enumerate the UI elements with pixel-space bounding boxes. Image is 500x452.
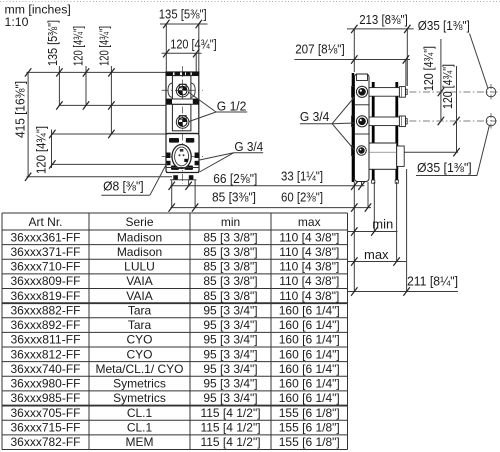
svg-text:85 [3 3/8"]: 85 [3 3/8"]: [203, 245, 257, 259]
svg-text:33 [1¼"]: 33 [1¼"]: [281, 169, 323, 184]
corner pads: [169, 138, 179, 143]
centerline circle1 vertical: [490, 84, 492, 100]
centerline pipe2 horizontal: [369, 120, 497, 122]
svg-text:160 [6 1/4"]: 160 [6 1/4"]: [279, 391, 340, 405]
svg-text:Madison: Madison: [117, 230, 162, 244]
mid module inner box: [172, 104, 191, 131]
svg-text:MEM: MEM: [126, 435, 154, 449]
left reference line E (bottom): [27, 176, 173, 178]
svg-text:max: max: [298, 215, 321, 229]
dim 120 vertical line bottom-left: [51, 130, 53, 169]
top dotted border: [0, 1, 500, 3]
table grid: [2, 212, 348, 214]
dim 120 vertical line #2: [110, 66, 112, 134]
svg-text:155 [6 1/8"]: 155 [6 1/8"]: [279, 406, 340, 420]
top rail band with pads: [166, 72, 199, 76]
svg-text:85 [3 3/8"]: 85 [3 3/8"]: [203, 260, 257, 274]
svg-text:207 [8⅛"]: 207 [8⅛"]: [295, 42, 345, 57]
left rail bar: [372, 82, 375, 180]
dim 120 top horizontal: [162, 52, 202, 54]
dim 120 vertical line #1: [85, 66, 87, 105]
upper module inner box: [172, 76, 191, 99]
port G1/2 lower: stem rect: [179, 116, 186, 120]
circle d35 bottom: [486, 116, 496, 126]
centerline left view oval horizontal: [162, 156, 204, 158]
svg-text:G 3/4: G 3/4: [300, 109, 329, 124]
dim 135 top horizontal: line and extensions: [160, 23, 208, 25]
svg-text:36xxx740-FF: 36xxx740-FF: [11, 362, 81, 376]
svg-text:85 [3 3/8"]: 85 [3 3/8"]: [203, 274, 257, 288]
svg-text:85 [3 3/8"]: 85 [3 3/8"]: [203, 230, 257, 244]
svg-text:36xxx819-FF: 36xxx819-FF: [11, 289, 81, 303]
svg-text:160 [6 1/4"]: 160 [6 1/4"]: [279, 347, 340, 361]
svg-text:36xxx985-FF: 36xxx985-FF: [11, 391, 81, 405]
svg-text:LULU: LULU: [124, 260, 155, 274]
svg-text:Symetrics: Symetrics: [113, 391, 166, 405]
left reference line D: [53, 163, 166, 165]
dim 213 line: [347, 28, 414, 30]
oval inner marks: [184, 159, 188, 162]
svg-text:Madison: Madison: [117, 245, 162, 259]
right rail bar: [395, 82, 398, 180]
feet: [173, 175, 178, 180]
left reference line B: [59, 104, 166, 106]
211 dim line: [348, 291, 458, 293]
port G1/2 lower circle: [176, 116, 189, 129]
svg-text:Tara: Tara: [128, 303, 152, 317]
big oval G3/4 outer: [172, 145, 191, 169]
lower module (G3/4) outline: [166, 134, 199, 173]
svg-text:36xxx782-FF: 36xxx782-FF: [11, 435, 81, 449]
svg-text:110 [4 3/8"]: 110 [4 3/8"]: [279, 274, 339, 288]
svg-text:120 [4¾"]: 120 [4¾"]: [70, 26, 85, 66]
svg-text:Ø35 [1⅜"]: Ø35 [1⅜"]: [417, 160, 472, 175]
svg-text:95 [3 3/4"]: 95 [3 3/4"]: [203, 318, 257, 332]
wall plate thick line: [352, 73, 355, 182]
bottom bar of lower module: [166, 167, 199, 169]
port G1/2 upper: stem rect: [179, 84, 186, 88]
centerline left view vertical: [181, 66, 183, 184]
svg-text:115 [4 1/2"]: 115 [4 1/2"]: [200, 406, 260, 420]
svg-text:160 [6 1/4"]: 160 [6 1/4"]: [279, 318, 340, 332]
svg-text:160 [6 1/4"]: 160 [6 1/4"]: [279, 303, 340, 317]
big oval inner: [175, 147, 189, 166]
svg-text:CL.1: CL.1: [127, 420, 153, 434]
pipe1: [369, 88, 399, 97]
svg-text:Tara: Tara: [128, 318, 152, 332]
module separators: [355, 104, 370, 106]
svg-text:36xxx811-FF: 36xxx811-FF: [11, 333, 81, 347]
left reference line C: [53, 133, 166, 135]
svg-text:95 [3 3/4"]: 95 [3 3/4"]: [203, 333, 257, 347]
svg-text:Ø8 [⅜"]: Ø8 [⅜"]: [103, 178, 144, 193]
dim 415 vertical line: [27, 72, 29, 176]
svg-text:36xxx980-FF: 36xxx980-FF: [11, 377, 81, 391]
svg-text:VAIA: VAIA: [126, 289, 152, 303]
svg-text:110 [4 3/8"]: 110 [4 3/8"]: [279, 245, 339, 259]
tick marks: [163, 20, 169, 28]
svg-text:155 [6 1/8"]: 155 [6 1/8"]: [279, 420, 340, 434]
svg-text:110 [4 3/8"]: 110 [4 3/8"]: [279, 289, 339, 303]
min dim line: [348, 231, 398, 233]
svg-text:213 [8⅜"]: 213 [8⅜"]: [359, 12, 408, 27]
svg-text:160 [6 1/4"]: 160 [6 1/4"]: [279, 362, 340, 376]
svg-text:G 3/4: G 3/4: [234, 139, 263, 154]
bottom dim line 85/60: [170, 207, 371, 209]
max dim line: [348, 261, 406, 263]
svg-text:60 [2⅜"]: 60 [2⅜"]: [281, 190, 323, 205]
centerline pipe3 short: [369, 151, 404, 153]
small left nubs: [352, 87, 355, 98]
svg-text:115 [4 1/2"]: 115 [4 1/2"]: [200, 435, 260, 449]
svg-text:85 [3⅜"]: 85 [3⅜"]: [212, 190, 256, 205]
extension below left view: [171, 180, 173, 208]
svg-text:120 [4¾"]: 120 [4¾"]: [440, 64, 455, 109]
svg-text:120 [4¾"]: 120 [4¾"]: [170, 36, 216, 51]
svg-text:CYO: CYO: [126, 347, 152, 361]
svg-text:120 [4¾"]: 120 [4¾"]: [33, 126, 48, 174]
svg-text:min: min: [372, 216, 393, 231]
svg-text:211 [8¼"]: 211 [8¼"]: [407, 273, 458, 288]
svg-text:135 [5⅜"]: 135 [5⅜"]: [45, 20, 60, 66]
svg-text:95 [3 3/4"]: 95 [3 3/4"]: [203, 347, 257, 361]
svg-text:120 [4¾"]: 120 [4¾"]: [96, 26, 111, 66]
pipe3 big cylinder: [369, 143, 397, 169]
svg-text:135 [5⅜"]: 135 [5⅜"]: [159, 7, 207, 22]
dim 120 right vertical #2: [456, 66, 458, 152]
bottom dim line 66/33: [170, 185, 364, 187]
svg-text:VAIA: VAIA: [126, 274, 152, 288]
svg-text:Meta/CL.1/ CYO: Meta/CL.1/ CYO: [95, 362, 183, 376]
svg-text:110 [4 3/8"]: 110 [4 3/8"]: [279, 260, 339, 274]
svg-text:110 [4 3/8"]: 110 [4 3/8"]: [279, 230, 339, 244]
module1 port circle: [356, 86, 367, 97]
mid rail band with pads: [166, 99, 199, 104]
svg-text:Symetrics: Symetrics: [113, 377, 166, 391]
svg-text:85 [3 3/8"]: 85 [3 3/8"]: [203, 289, 257, 303]
svg-text:max: max: [364, 247, 389, 262]
module1 cap: [357, 74, 368, 81]
side clips: [166, 153, 170, 159]
circle d35 top: [486, 87, 496, 97]
dim 207 line: [294, 59, 410, 61]
svg-text:95 [3 3/4"]: 95 [3 3/4"]: [203, 391, 257, 405]
centerline pipe1 horizontal: [369, 91, 500, 93]
centerline left view port1 horizontal: [162, 89, 203, 91]
svg-text:36xxx812-FF: 36xxx812-FF: [11, 347, 81, 361]
left ear: [168, 83, 172, 98]
left view body outline: [166, 72, 199, 134]
dim 120 right vertical #1: [440, 39, 442, 121]
svg-text:36xxx710-FF: 36xxx710-FF: [11, 260, 81, 274]
svg-text:G 1/2: G 1/2: [217, 98, 247, 113]
svg-text:Art Nr.: Art Nr.: [28, 215, 62, 229]
port G1/2 upper circle: [176, 84, 189, 97]
svg-text:160 [6 1/4"]: 160 [6 1/4"]: [279, 333, 340, 347]
svg-text:155 [6 1/8"]: 155 [6 1/8"]: [279, 435, 340, 449]
svg-text:95 [3 3/4"]: 95 [3 3/4"]: [203, 303, 257, 317]
svg-text:36xxx809-FF: 36xxx809-FF: [11, 274, 81, 288]
pipe2: [369, 117, 399, 126]
svg-text:160 [6 1/4"]: 160 [6 1/4"]: [279, 377, 340, 391]
svg-text:36xxx715-FF: 36xxx715-FF: [11, 420, 81, 434]
svg-text:CYO: CYO: [126, 333, 152, 347]
svg-text:36xxx892-FF: 36xxx892-FF: [11, 318, 81, 332]
dim 135 vertical line: [58, 66, 60, 105]
svg-text:Ø35 [1⅜"]: Ø35 [1⅜"]: [418, 18, 470, 33]
svg-text:36xxx882-FF: 36xxx882-FF: [11, 303, 81, 317]
svg-text:Serie: Serie: [125, 215, 153, 229]
centerline circle2 vertical: [490, 113, 492, 129]
svg-text:36xxx361-FF: 36xxx361-FF: [11, 230, 81, 244]
svg-text:115 [4 1/2"]: 115 [4 1/2"]: [200, 420, 260, 434]
svg-text:36xxx371-FF: 36xxx371-FF: [11, 245, 81, 259]
svg-text:66 [2⅝"]: 66 [2⅝"]: [213, 171, 257, 186]
body column outline: [355, 74, 370, 182]
right ear: [191, 83, 195, 98]
svg-text:CL.1: CL.1: [127, 406, 153, 420]
svg-text:1:10: 1:10: [5, 15, 29, 29]
module2 port circle: [356, 116, 367, 127]
svg-text:415 [16⅜"]: 415 [16⅜"]: [12, 81, 27, 138]
left reference line A (top of body): [27, 71, 167, 73]
pipe3 extension line to dim: [405, 151, 459, 153]
svg-text:min: min: [221, 215, 240, 229]
extensions below right view: [353, 182, 355, 292]
svg-text:95 [3 3/4"]: 95 [3 3/4"]: [203, 362, 257, 376]
svg-text:120 [4¾"]: 120 [4¾"]: [421, 46, 436, 91]
svg-text:36xxx705-FF: 36xxx705-FF: [11, 406, 81, 420]
svg-text:95 [3 3/4"]: 95 [3 3/4"]: [203, 377, 257, 391]
module3 port circle: [357, 146, 367, 156]
